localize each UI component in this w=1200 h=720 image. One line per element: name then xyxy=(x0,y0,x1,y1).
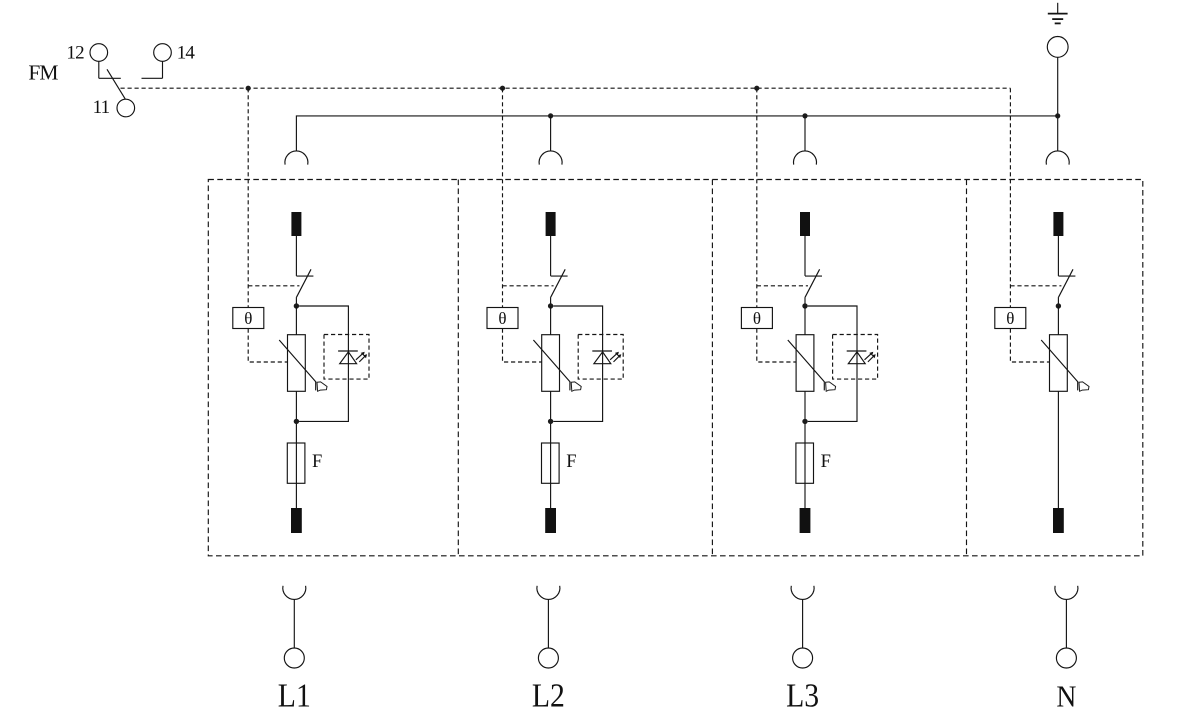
disconnect flag ch3 xyxy=(826,382,836,391)
LED cathode bar ch1 xyxy=(338,350,358,352)
dashed signal wire drop to N module xyxy=(1009,88,1011,307)
junction bus ch2 xyxy=(548,113,553,118)
indicator dashed box ch2 xyxy=(578,335,623,380)
dashed link sensor to varistor ch2 xyxy=(503,329,542,363)
dashed signal tap ch1 xyxy=(247,88,249,307)
terminal 11 (common) xyxy=(117,99,135,117)
wire to terminal L2 xyxy=(547,599,549,648)
socket contact bottom L3 xyxy=(791,586,814,600)
wire node to varistor ch2 xyxy=(550,306,552,335)
svg-text:11: 11 xyxy=(93,97,110,118)
svg-text:L3: L3 xyxy=(786,678,819,715)
wire pin to disconnector ch2 xyxy=(550,236,552,276)
disconnect flag ch2 xyxy=(571,382,581,391)
dashed signal tap ch2 xyxy=(502,88,504,307)
svg-text:14: 14 xyxy=(177,42,196,63)
socket contact bottom N xyxy=(1055,586,1078,600)
fuse body F ch1 xyxy=(287,443,305,483)
wire varistor to pin ch4 xyxy=(1057,391,1059,508)
junction node bottom ch3 xyxy=(802,419,807,424)
socket contact top ch1 xyxy=(285,151,308,165)
varistor body ch3 xyxy=(796,335,814,392)
dashed link disconnector ch1 xyxy=(248,285,299,287)
thermal sensor box ch4 xyxy=(995,308,1026,329)
junction PE bus xyxy=(1055,113,1060,118)
fixed contact bracket 12 xyxy=(99,77,121,79)
LED arrow 2 ch1 xyxy=(359,354,367,362)
indicator dashed box ch3 xyxy=(833,335,878,380)
socket contact top ch2 xyxy=(539,151,562,165)
node on signal bus ch2 xyxy=(500,86,505,91)
varistor diagonal ch2 xyxy=(533,340,570,390)
junction node top ch3 xyxy=(802,303,807,308)
wire blade to node ch1 xyxy=(295,298,297,306)
svg-text:F: F xyxy=(566,452,576,472)
disconnect flag ch4 xyxy=(1079,382,1089,391)
varistor diagonal ch1 xyxy=(279,340,316,390)
wire pin to disconnector ch4 xyxy=(1057,236,1059,276)
thermal disconnector contact tick ch3 xyxy=(805,275,822,277)
plug-in pin top ch1 (black bar) xyxy=(291,212,301,236)
LED triangle ch2 xyxy=(594,352,611,364)
LED triangle ch3 xyxy=(848,352,865,364)
wire bus drop ch3 xyxy=(804,116,806,151)
wire varistor to fuse node ch2 xyxy=(550,391,552,443)
dashed link sensor to varistor ch4 xyxy=(1010,329,1049,363)
wire blade to node ch3 xyxy=(804,298,806,306)
thermal sensor box ch3 xyxy=(741,308,772,329)
socket contact bottom L1 xyxy=(283,586,306,600)
LED triangle ch1 xyxy=(340,352,357,364)
wire node to varistor ch4 xyxy=(1057,306,1059,335)
thermal sensor box ch2 xyxy=(487,308,518,329)
wire node to varistor ch1 xyxy=(295,306,297,335)
wire node to varistor ch3 xyxy=(804,306,806,335)
disconnect flag ch1 xyxy=(317,382,327,391)
dashed divider ch1/ch2 xyxy=(457,180,459,556)
terminal circle L1 xyxy=(284,648,304,668)
LED arrow 2 ch2 xyxy=(614,354,622,362)
dashed divider ch3/ch4 xyxy=(966,180,968,556)
dashed link sensor to varistor ch1 xyxy=(248,329,287,363)
wire pin to disconnector ch3 xyxy=(804,236,806,276)
junction node top ch2 xyxy=(548,303,553,308)
svg-text:θ: θ xyxy=(1006,309,1014,328)
thermal disconnector contact tick ch4 xyxy=(1058,275,1075,277)
varistor body ch1 xyxy=(288,335,306,392)
node on signal bus ch3 xyxy=(754,86,759,91)
dashed link sensor to varistor ch3 xyxy=(757,329,796,363)
svg-text:θ: θ xyxy=(244,309,252,328)
wire stem of terminal 12 xyxy=(98,61,100,78)
wire pin to disconnector ch1 xyxy=(295,236,297,276)
fuse through-wire ch1 xyxy=(295,443,297,508)
wire to terminal L3 xyxy=(802,599,804,648)
terminal circle N xyxy=(1056,648,1076,668)
LED arrow 2 ch3 xyxy=(868,354,876,362)
svg-text:L1: L1 xyxy=(278,678,311,715)
plug-in pin top ch4 (black bar) xyxy=(1053,212,1063,236)
junction node top ch4 xyxy=(1056,303,1061,308)
dashed link disconnector ch3 xyxy=(757,285,808,287)
plug-in pin bottom ch2 (black bar) xyxy=(545,508,556,533)
fixed contact bracket 14 xyxy=(142,77,163,79)
fuse body F ch2 xyxy=(542,443,560,483)
plug-in pin bottom ch1 (black bar) xyxy=(291,508,302,533)
svg-text:FM: FM xyxy=(28,61,58,85)
terminal 12 xyxy=(90,44,108,62)
wire PE terminal to bus xyxy=(1057,57,1059,151)
wire indicator branch ch2 xyxy=(553,306,602,421)
plug-in pin top ch2 (black bar) xyxy=(546,212,556,236)
dashed link disconnector ch4 xyxy=(1010,285,1061,287)
node on signal bus ch1 xyxy=(246,86,251,91)
wire blade to node ch2 xyxy=(550,298,552,306)
dashed divider ch2/ch3 xyxy=(711,180,713,556)
svg-text:F: F xyxy=(312,452,322,472)
varistor diagonal ch4 xyxy=(1041,340,1078,390)
wire to terminal N xyxy=(1065,599,1067,648)
svg-text:N: N xyxy=(1056,679,1076,714)
socket contact top ch4 xyxy=(1046,151,1069,165)
solid bus wire with drop to channel 1 xyxy=(296,116,1057,151)
changeover contact blade FM xyxy=(107,69,125,99)
wire stem of terminal 14 xyxy=(162,61,164,78)
junction node top ch1 xyxy=(294,303,299,308)
thermal disconnector blade ch1 xyxy=(296,269,311,298)
plug-in pin bottom ch3 (black bar) xyxy=(800,508,811,533)
terminal 14 xyxy=(154,44,172,62)
socket contact bottom L2 xyxy=(537,586,560,600)
LED arrow 1 ch1 xyxy=(356,352,365,360)
thermal disconnector blade ch2 xyxy=(550,269,565,298)
svg-text:θ: θ xyxy=(498,309,506,328)
svg-text:L2: L2 xyxy=(532,678,565,715)
dashed signal wire from FM contact xyxy=(121,87,1011,89)
wire varistor to fuse node ch1 xyxy=(295,391,297,443)
wire indicator branch ch1 xyxy=(299,306,348,421)
thermal sensor box ch1 xyxy=(233,308,264,329)
wire bus drop ch2 xyxy=(550,116,552,151)
LED cathode bar ch2 xyxy=(592,350,612,352)
thermal disconnector contact tick ch2 xyxy=(551,275,568,277)
ground symbol PE xyxy=(1048,3,1068,24)
PE terminal circle xyxy=(1047,37,1068,58)
LED cathode bar ch3 xyxy=(847,350,867,352)
plug-in pin top ch3 (black bar) xyxy=(800,212,810,236)
fuse body F ch3 xyxy=(796,443,814,483)
terminal circle L3 xyxy=(793,648,813,668)
varistor body ch4 xyxy=(1050,335,1068,392)
dashed enclosure of SPD base xyxy=(208,180,1143,556)
svg-text:F: F xyxy=(821,452,831,472)
junction bus ch3 xyxy=(802,113,807,118)
junction node bottom ch1 xyxy=(294,419,299,424)
thermal disconnector blade ch4 xyxy=(1058,269,1073,298)
socket contact top ch3 xyxy=(793,151,816,165)
LED arrow 1 ch2 xyxy=(610,352,619,360)
varistor diagonal ch3 xyxy=(788,340,825,390)
dashed signal tap ch3 xyxy=(756,88,758,307)
LED arrow 1 ch3 xyxy=(865,352,874,360)
dashed link disconnector ch2 xyxy=(503,285,554,287)
varistor body ch2 xyxy=(542,335,560,392)
svg-text:θ: θ xyxy=(753,309,761,328)
thermal disconnector blade ch3 xyxy=(805,269,820,298)
junction node bottom ch2 xyxy=(548,419,553,424)
terminal circle L2 xyxy=(538,648,558,668)
indicator dashed box ch1 xyxy=(324,335,369,380)
fuse through-wire ch2 xyxy=(550,443,552,508)
svg-text:12: 12 xyxy=(66,42,84,63)
fuse through-wire ch3 xyxy=(804,443,806,508)
plug-in pin bottom ch4 (black bar) xyxy=(1053,508,1064,533)
wire indicator branch ch3 xyxy=(808,306,857,421)
wire to terminal L1 xyxy=(293,599,295,648)
wire blade to node ch4 xyxy=(1057,298,1059,306)
wire varistor to fuse node ch3 xyxy=(804,391,806,443)
thermal disconnector contact tick ch1 xyxy=(296,275,313,277)
